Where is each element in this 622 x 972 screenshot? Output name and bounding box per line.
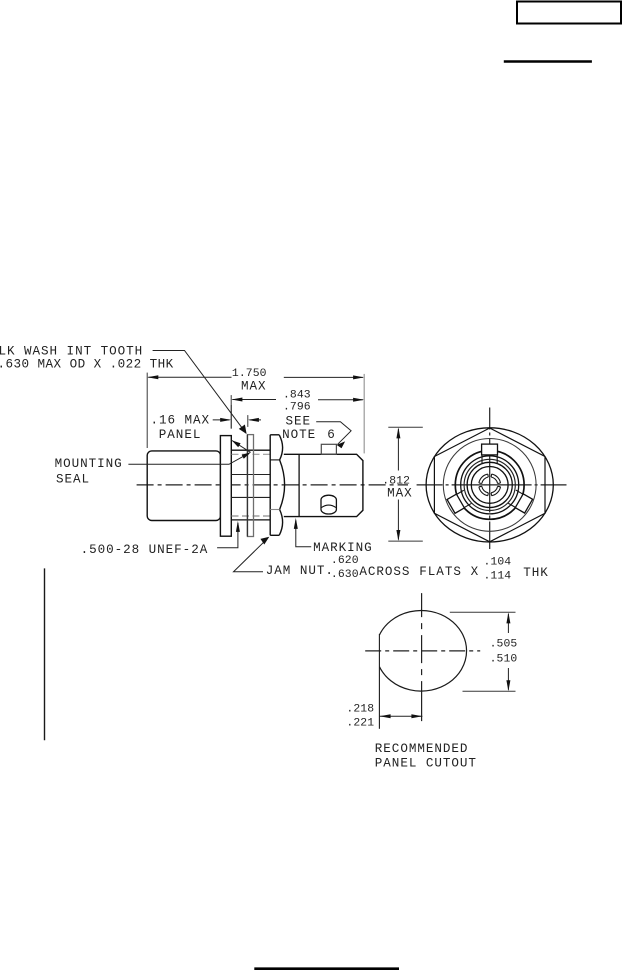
chamfer circle (443, 439, 536, 532)
washer1 extension line (230, 405, 232, 429)
mounting seal washer W2 (248, 435, 254, 537)
tab top slot lines (482, 455, 497, 463)
arrow lock washer leader (239, 425, 247, 435)
arrow seal apex (242, 452, 251, 458)
dim right extension grey (363, 374, 365, 454)
svg-text:.500-28 UNEF-2A: .500-28 UNEF-2A (81, 543, 209, 557)
dim .812 bottom extension (388, 540, 423, 542)
ring r29 (461, 456, 519, 514)
svg-text:.630 MAX OD X .022 THK: .630 MAX OD X .022 THK (0, 358, 174, 372)
arrow .812 bottom (396, 530, 400, 541)
svg-text:ACROSS: ACROSS (359, 565, 410, 579)
panel extension line right (247, 415, 249, 427)
header underline (504, 60, 592, 63)
marking leader (296, 521, 311, 547)
arrow .218 right (411, 714, 422, 718)
dim .505 bottom extension (463, 690, 516, 692)
bayonet tab lower right (508, 490, 532, 513)
arrow marking leader (294, 518, 298, 529)
svg-text:.221: .221 (346, 718, 374, 730)
svg-text:MARKING: MARKING (313, 541, 373, 555)
svg-text:NOTE: NOTE (282, 428, 316, 442)
jam nut (270, 435, 284, 536)
svg-text:SEE: SEE (286, 414, 312, 428)
shank inner line lower (231, 496, 270, 498)
svg-text:.16 MAX: .16 MAX (151, 414, 211, 428)
thread crest bottom (231, 519, 270, 521)
svg-text:.843: .843 (283, 390, 311, 402)
see-note flag leader (316, 422, 351, 445)
connector rear body (147, 451, 220, 521)
svg-text:.620: .620 (331, 555, 359, 567)
svg-text:MAX: MAX (387, 486, 413, 500)
bayonet ring (455, 451, 524, 520)
arrow flag (337, 441, 346, 448)
arrow .812 top (396, 427, 400, 438)
svg-text:SEAL: SEAL (56, 472, 90, 486)
dim .505 line (507, 614, 509, 690)
svg-text:.796: .796 (283, 402, 311, 414)
svg-text:.114: .114 (484, 571, 512, 583)
mounting seal leader (128, 453, 249, 464)
dim 1.750 line (148, 376, 363, 378)
lock washer W1 (220, 436, 231, 537)
dim .843 left extension (230, 395, 232, 429)
svg-text:.104: .104 (484, 556, 512, 568)
svg-text:.218: .218 (346, 704, 374, 716)
outer ellipse (426, 428, 553, 542)
bayonet tab lower left (447, 490, 471, 513)
svg-text:LK WASH INT TOOTH: LK WASH INT TOOTH (0, 344, 143, 358)
centerline axis side view (137, 484, 408, 486)
coupling body outline (284, 454, 363, 516)
dim .218 line (380, 715, 423, 717)
arrow jam nut leader (260, 537, 269, 545)
dim .843 line (232, 399, 363, 401)
jam nut leader (234, 538, 268, 572)
arrow 1.750 right (353, 375, 364, 379)
thread root dashed top (232, 453, 271, 455)
arrow 1.750 left (147, 375, 158, 379)
svg-text:.630: .630 (331, 569, 359, 581)
svg-text:.505: .505 (490, 638, 518, 650)
left margin vertical line (44, 568, 46, 740)
seal corner arrow line (232, 441, 251, 453)
svg-text:PANEL CUTOUT: PANEL CUTOUT (375, 756, 477, 770)
dim .812 line (397, 429, 399, 540)
front view vertical centerline (489, 408, 491, 550)
bayonet stud front (321, 495, 336, 514)
cutout circle with flat (380, 611, 467, 692)
cutout horizontal centerline (365, 650, 480, 652)
bayonet lug top (321, 444, 336, 454)
svg-text:MOUNTING: MOUNTING (55, 457, 123, 471)
footer rule (254, 967, 399, 970)
dim .505 top extension (450, 611, 516, 613)
svg-text:MAX: MAX (241, 379, 267, 393)
center contact inner circle arcs (482, 477, 498, 493)
arrow .218 left (380, 714, 391, 718)
arrow .843 left (231, 398, 242, 402)
thread crest top (231, 449, 270, 451)
svg-text:FLATS: FLATS (419, 565, 462, 579)
title block box (517, 2, 621, 24)
arrow at washer corner (232, 440, 241, 447)
shank inner line upper (231, 474, 270, 476)
svg-text:RECOMMENDED: RECOMMENDED (375, 742, 469, 756)
arrow .843 right (353, 398, 364, 402)
svg-text:1.750: 1.750 (232, 368, 267, 380)
ring r22.6 (467, 462, 512, 507)
svg-text:THK: THK (523, 566, 549, 580)
cutout vertical centerline (421, 593, 423, 729)
svg-text:X: X (471, 565, 480, 579)
center contact outer arcs (479, 474, 501, 496)
dim .812 top extension (388, 426, 423, 428)
arrow thread leader (236, 521, 240, 532)
hex nut flats (434, 428, 545, 542)
arrow .505 top (506, 612, 510, 623)
front view horizontal centerline (417, 484, 567, 486)
thread root dashed bottom (232, 515, 271, 517)
svg-text:JAM NUT.: JAM NUT. (266, 564, 334, 578)
arrow .505 bottom (506, 680, 510, 691)
dim 1.750 left extension (146, 373, 148, 448)
svg-text:6: 6 (327, 428, 336, 442)
ring r18.4 (471, 467, 508, 504)
thread leader (217, 523, 238, 548)
lock washer leader (153, 351, 246, 434)
svg-text:.510: .510 (490, 654, 518, 666)
ring r25.7 (464, 459, 515, 510)
svg-text:PANEL: PANEL (159, 428, 202, 442)
dim .16 arrows (213, 419, 230, 421)
cutout flat and extension (378, 634, 380, 729)
coupling sleeve rear edge (298, 454, 300, 516)
bayonet tab top (482, 444, 498, 455)
